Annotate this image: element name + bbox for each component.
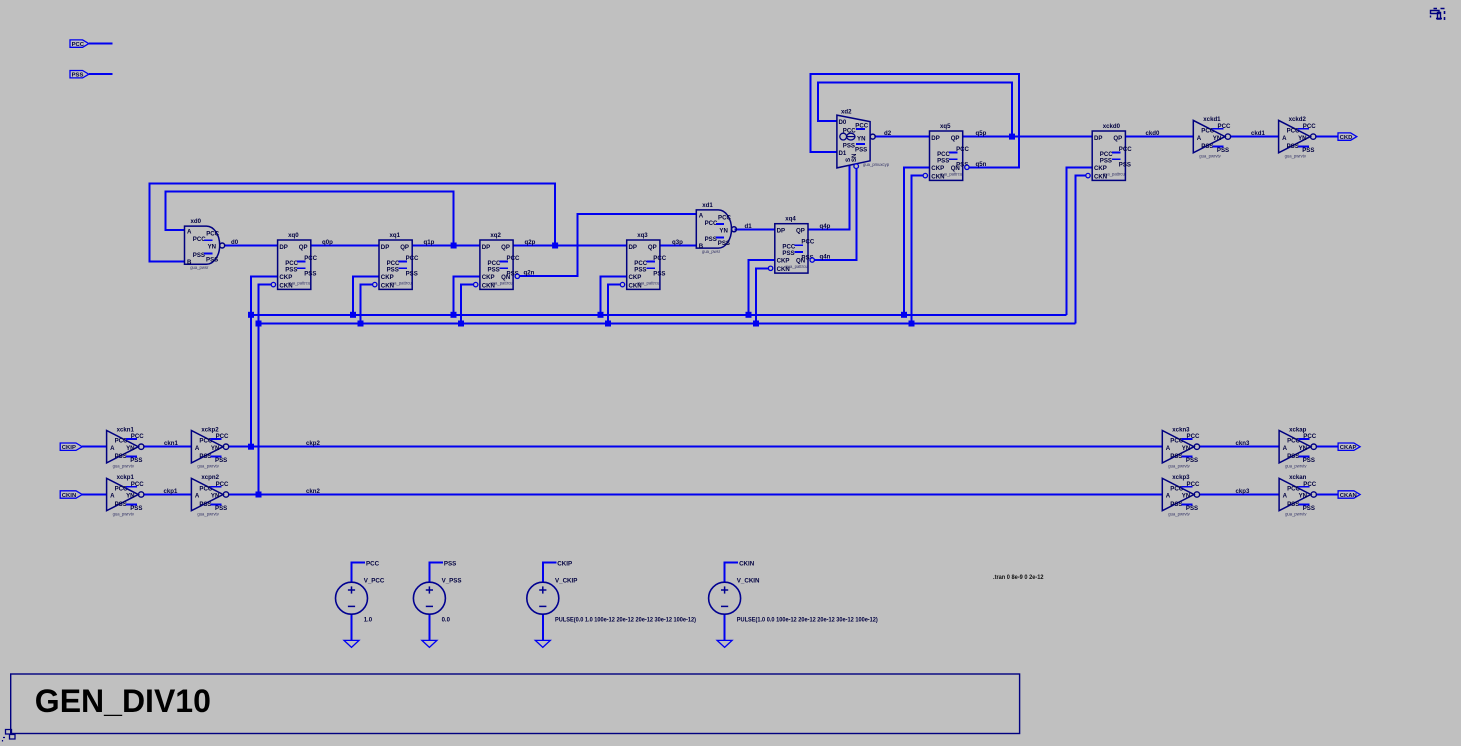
wire xq0 CKP hookup <box>251 276 278 446</box>
svg-text:V_PCC: V_PCC <box>364 577 385 584</box>
svg-text:q5n: q5n <box>976 161 987 168</box>
svg-text:PCC: PCC <box>653 255 666 262</box>
svg-text:gua_pwrvtv: gua_pwrvtv <box>197 511 219 516</box>
wire net ckd2 to CKD port <box>1316 136 1338 138</box>
port PSS (top-left) <box>70 71 89 79</box>
svg-text:CKN: CKN <box>931 173 944 180</box>
svg-text:d2: d2 <box>884 130 892 137</box>
svg-text:A: A <box>1283 493 1288 500</box>
svg-text:xq1: xq1 <box>390 232 401 239</box>
flip-flop xq2 <box>474 232 520 290</box>
flip-flop xq4 <box>768 216 814 274</box>
svg-text:CKIP: CKIP <box>557 560 572 567</box>
voltage source V_PSS <box>413 560 461 640</box>
wire net ckp1 <box>144 494 191 496</box>
wire bus ckn2 horizontal <box>259 323 1076 325</box>
svg-text:YN: YN <box>208 244 216 251</box>
junction q5p tap <box>1009 134 1015 140</box>
svg-text:SN: SN <box>851 154 858 162</box>
junction xq2 CKN on ckn2 bus <box>458 321 464 327</box>
svg-text:V_CKIP: V_CKIP <box>555 577 577 584</box>
title box GEN_DIV10 <box>11 674 1020 734</box>
svg-text:YN: YN <box>1182 493 1190 500</box>
junction q2p tap <box>552 243 558 249</box>
wire net q5p feedback (inner loop to xd2 D0) <box>818 83 1012 137</box>
svg-text:A: A <box>1166 445 1171 452</box>
svg-text:A: A <box>195 493 200 500</box>
svg-text:PSS: PSS <box>634 267 646 274</box>
svg-text:PSS: PSS <box>304 271 316 278</box>
wire net d0 <box>225 245 278 247</box>
nand xd0 <box>185 218 225 270</box>
svg-text:A: A <box>1166 493 1171 500</box>
svg-text:ckd1: ckd1 <box>1251 130 1266 137</box>
svg-text:PCC: PCC <box>366 560 380 567</box>
svg-text:PSS: PSS <box>1100 158 1112 165</box>
junction xq5 CKN on ckn2 bus <box>909 321 915 327</box>
svg-text:QP: QP <box>400 244 409 251</box>
wire net ckn3 <box>1200 446 1279 448</box>
svg-text:gua_pwrvtv: gua_pwrvtv <box>1285 153 1307 158</box>
inverter xckap <box>1279 426 1317 468</box>
svg-text:gua_pwrvtv: gua_pwrvtv <box>1199 153 1221 158</box>
junction q1p tap <box>451 243 457 249</box>
wire net ckp3 <box>1200 494 1279 496</box>
port CKIP <box>60 443 82 451</box>
svg-text:q1p: q1p <box>424 239 435 246</box>
junction xq4 CKP on ckp2 bus <box>746 312 752 318</box>
svg-text:gua_pwrvtv: gua_pwrvtv <box>113 464 135 469</box>
flip-flop xq0 <box>271 232 317 290</box>
wire xq0 CKN hookup <box>259 285 272 495</box>
svg-text:QP: QP <box>648 244 657 251</box>
wire net d1 <box>734 228 774 230</box>
junction xq1 CKN on ckn2 bus <box>358 321 364 327</box>
svg-text:q3p: q3p <box>672 239 683 246</box>
svg-text:PSS: PSS <box>206 256 218 263</box>
svg-text:A: A <box>1197 135 1202 142</box>
svg-text:PSS: PSS <box>782 250 794 257</box>
svg-text:YN: YN <box>1299 445 1307 452</box>
junction xq0 CKP on ckp2 bus <box>248 312 254 318</box>
wire net q4p (to xd2 S) <box>808 165 849 229</box>
svg-text:YN: YN <box>1182 445 1190 452</box>
svg-text:PSS: PSS <box>199 453 211 460</box>
svg-text:DP: DP <box>482 244 490 251</box>
inverter xckd1 <box>1193 116 1231 158</box>
junction ckn2 bus to ckn2 row <box>256 492 262 498</box>
wire from port PCC <box>89 43 113 45</box>
port CKAN <box>1338 491 1360 499</box>
svg-text:CKAN: CKAN <box>1340 493 1357 499</box>
svg-text:PSS: PSS <box>285 267 297 274</box>
svg-text:A: A <box>110 445 115 452</box>
svg-text:xq4: xq4 <box>785 216 796 223</box>
ground V_PSS <box>422 640 437 647</box>
nand xd1 <box>696 202 736 254</box>
svg-text:PSS: PSS <box>1287 501 1299 508</box>
wire xq5 CKP hookup <box>904 167 930 314</box>
svg-text:YN: YN <box>126 493 134 500</box>
svg-text:A: A <box>699 212 704 219</box>
svg-text:xckd0: xckd0 <box>1103 123 1121 130</box>
svg-text:PSS: PSS <box>444 560 456 567</box>
svg-text:gua_pwsr: gua_pwsr <box>190 265 209 270</box>
svg-text:DP: DP <box>381 244 389 251</box>
svg-text:CKIN: CKIN <box>739 560 755 567</box>
svg-text:QN: QN <box>501 274 510 281</box>
svg-text:PSS: PSS <box>1170 453 1182 460</box>
svg-text:ckp3: ckp3 <box>1236 488 1251 495</box>
svg-text:gua_pmuxcyp: gua_pmuxcyp <box>863 162 890 167</box>
svg-text:A: A <box>1283 445 1288 452</box>
flip-flop xq3 <box>620 232 666 290</box>
wire net q0p <box>311 245 379 247</box>
svg-text:YN: YN <box>1213 135 1221 142</box>
ground V_CKIP <box>535 640 550 647</box>
svg-text:xq2: xq2 <box>490 232 501 239</box>
svg-text:YN: YN <box>126 445 134 452</box>
svg-text:ckp2: ckp2 <box>306 440 321 447</box>
wire net q2p feedback (outer loop to xd0 B) <box>150 183 555 261</box>
wire net ckp2 long <box>229 446 1162 448</box>
svg-text:QN: QN <box>796 258 805 265</box>
wire xq3 CKN hookup <box>608 285 620 324</box>
wire net q5p (to xckd0 DP) <box>963 136 1092 138</box>
svg-text:CKIN: CKIN <box>62 493 76 499</box>
svg-text:q4n: q4n <box>820 254 831 261</box>
mux xd2 <box>837 109 890 169</box>
flip-flop xckd0 <box>1086 123 1132 181</box>
svg-text:q0p: q0p <box>322 239 333 246</box>
svg-text:xq0: xq0 <box>288 232 299 239</box>
svg-text:PCC: PCC <box>507 255 520 262</box>
wire xq1 CKN hookup <box>361 285 373 324</box>
wire net ckan to port <box>1317 494 1339 496</box>
junction xq2 CKP on ckp2 bus <box>451 312 457 318</box>
wire xckd0 CKN hookup <box>1075 176 1085 324</box>
inverter xckan <box>1279 474 1317 516</box>
svg-text:CKN: CKN <box>482 282 495 289</box>
svg-text:V_PSS: V_PSS <box>442 577 462 584</box>
port CKIN <box>60 491 82 499</box>
svg-text:PCC: PCC <box>801 239 814 246</box>
svg-text:DP: DP <box>1094 135 1102 142</box>
svg-text:ckd0: ckd0 <box>1146 130 1161 137</box>
svg-text:PSS: PSS <box>1287 143 1299 150</box>
inverter xcpn2 <box>191 474 229 516</box>
svg-text:PSS: PSS <box>937 158 949 165</box>
port PCC (top-left) <box>70 40 89 48</box>
svg-text:PSS: PSS <box>843 142 855 149</box>
svg-text:D1: D1 <box>839 150 847 157</box>
svg-text:QP: QP <box>1113 135 1122 142</box>
svg-text:A: A <box>110 493 115 500</box>
wire xq2 CKP hookup <box>454 276 480 315</box>
svg-text:A: A <box>195 445 200 452</box>
wire net ckd0 <box>1125 136 1193 138</box>
wire xq3 CKP hookup <box>601 276 627 315</box>
wire net q2n (to xd1 A) <box>518 214 696 276</box>
svg-text:xd1: xd1 <box>702 202 713 209</box>
svg-text:gua_pwrvtv: gua_pwrvtv <box>1285 511 1307 516</box>
wire from CKIN port <box>82 494 106 496</box>
flip-flop xq1 <box>373 232 419 290</box>
svg-text:YN: YN <box>857 135 865 142</box>
svg-text:gua_pwrvtv: gua_pwrvtv <box>1168 511 1190 516</box>
svg-text:PCC: PCC <box>304 255 317 262</box>
voltage source V_CKIP <box>527 560 696 640</box>
svg-text:PSS: PSS <box>193 252 205 259</box>
svg-text:1.0: 1.0 <box>364 618 373 624</box>
svg-text:PULSE(0.0 1.0 100e-12 20e-12 2: PULSE(0.0 1.0 100e-12 20e-12 20e-12 30e-… <box>555 618 696 624</box>
wire net ckd1 <box>1231 136 1279 138</box>
svg-text:PSS: PSS <box>653 271 665 278</box>
svg-text:CKN: CKN <box>1094 173 1107 180</box>
svg-text:YN: YN <box>211 493 219 500</box>
svg-text:.tran 0 8e-9 0 2e-12: .tran 0 8e-9 0 2e-12 <box>993 575 1044 581</box>
svg-text:CKIP: CKIP <box>62 445 76 451</box>
svg-text:PSS: PSS <box>718 240 730 247</box>
wire net q1p feedback (inner loop to xd0 A) <box>166 192 454 246</box>
svg-text:DP: DP <box>279 244 287 251</box>
svg-text:CKN: CKN <box>279 282 292 289</box>
svg-text:YN: YN <box>719 227 727 234</box>
wire net q2p <box>513 245 627 247</box>
svg-text:PSS: PSS <box>72 73 84 79</box>
svg-text:DP: DP <box>777 228 785 235</box>
svg-text:CKAP: CKAP <box>1340 445 1357 451</box>
svg-text:q2p: q2p <box>525 239 536 246</box>
junction xq3 CKN on ckn2 bus <box>605 321 611 327</box>
svg-text:PSS: PSS <box>1170 501 1182 508</box>
svg-text:PCC: PCC <box>206 231 219 238</box>
flip-flop xq5 <box>923 123 969 181</box>
corner marker icon (top right) <box>1431 9 1445 21</box>
wire xq5 CKN hookup <box>912 176 923 324</box>
svg-text:PCC: PCC <box>406 255 419 262</box>
junction xq1 CKP on ckp2 bus <box>350 312 356 318</box>
svg-text:PCC: PCC <box>843 127 856 134</box>
ground V_CKIN <box>717 640 732 647</box>
svg-text:CKN: CKN <box>777 266 790 273</box>
svg-text:D0: D0 <box>839 119 847 126</box>
svg-text:PSS: PSS <box>406 271 418 278</box>
wire xq4 CKP hookup <box>749 260 775 315</box>
wire net d2 <box>875 136 929 138</box>
svg-text:PCC: PCC <box>718 214 731 221</box>
svg-text:gua_pwrvtv: gua_pwrvtv <box>113 511 135 516</box>
svg-text:V_CKIN: V_CKIN <box>737 577 760 584</box>
svg-text:0.0: 0.0 <box>442 618 451 624</box>
wire from port PSS <box>89 73 113 75</box>
wire net q5n feedback (outer loop to xd2 D1) <box>810 74 1019 167</box>
wire from CKIP port <box>82 446 106 448</box>
svg-text:QN: QN <box>951 165 960 172</box>
svg-text:PCC: PCC <box>72 42 85 48</box>
junction xq5 CKP on ckp2 bus <box>901 312 907 318</box>
wire xq2 CKN hookup <box>461 285 473 324</box>
svg-text:q4p: q4p <box>820 223 831 230</box>
svg-text:QP: QP <box>796 228 805 235</box>
wire xq4 CKN hookup <box>756 268 768 323</box>
svg-text:xd2: xd2 <box>841 109 852 116</box>
wire bus ckp2 horizontal <box>251 314 1067 316</box>
wire net q3p <box>660 245 696 247</box>
svg-text:d1: d1 <box>745 223 753 230</box>
svg-text:q5p: q5p <box>976 130 987 137</box>
wire net ckn1 <box>144 446 191 448</box>
svg-text:gua_pwrvtv: gua_pwrvtv <box>1285 464 1307 469</box>
svg-text:YN: YN <box>211 445 219 452</box>
svg-text:A: A <box>1282 135 1287 142</box>
svg-text:PSS: PSS <box>199 501 211 508</box>
voltage source V_CKIN <box>709 560 878 640</box>
svg-text:ckn2: ckn2 <box>306 488 321 495</box>
corner marker icon (bottom left) <box>3 730 16 742</box>
svg-text:PSS: PSS <box>1119 162 1131 169</box>
svg-text:PSS: PSS <box>855 147 867 154</box>
svg-text:xd0: xd0 <box>191 218 202 225</box>
port CKD <box>1338 133 1357 141</box>
svg-text:CKD: CKD <box>1340 135 1353 141</box>
svg-text:PSS: PSS <box>387 267 399 274</box>
svg-text:PSS: PSS <box>1201 143 1213 150</box>
inverter xckd2 <box>1279 116 1317 158</box>
svg-text:PCC: PCC <box>956 146 969 153</box>
junction xq0 CKN on ckn2 bus <box>256 321 262 327</box>
svg-text:ckn1: ckn1 <box>164 440 179 447</box>
inverter xckp2 <box>191 426 229 468</box>
svg-text:ckp1: ckp1 <box>164 488 179 495</box>
svg-text:q2n: q2n <box>524 270 535 277</box>
svg-text:PSS: PSS <box>705 236 717 243</box>
inverter xckp3 <box>1162 474 1200 516</box>
wire net ckap to port <box>1317 446 1339 448</box>
svg-text:QP: QP <box>501 244 510 251</box>
svg-text:YN: YN <box>1299 493 1307 500</box>
svg-text:gua_pwrvtv: gua_pwrvtv <box>1168 464 1190 469</box>
voltage source V_PCC <box>336 560 385 640</box>
wire net q1p <box>412 245 480 247</box>
svg-text:CKN: CKN <box>381 282 394 289</box>
svg-text:QP: QP <box>951 135 960 142</box>
wire xq1 CKP hookup <box>353 276 379 315</box>
wire net q4n (to xd2 SN) <box>813 169 856 260</box>
svg-text:PCC: PCC <box>1119 146 1132 153</box>
svg-text:YN: YN <box>1298 135 1306 142</box>
svg-text:DP: DP <box>931 135 939 142</box>
svg-text:PULSE(1.0 0.0 100e-12 20e-12 2: PULSE(1.0 0.0 100e-12 20e-12 20e-12 30e-… <box>737 618 878 624</box>
svg-text:PSS: PSS <box>1287 453 1299 460</box>
wire xckd0 CKP hookup <box>1067 167 1093 314</box>
junction xq3 CKP on ckp2 bus <box>598 312 604 318</box>
svg-text:d0: d0 <box>231 239 239 246</box>
svg-text:A: A <box>187 229 192 236</box>
svg-text:QP: QP <box>299 244 308 251</box>
svg-text:PSS: PSS <box>115 453 127 460</box>
svg-text:ckn3: ckn3 <box>1236 440 1251 447</box>
inverter xckn1 <box>107 426 145 468</box>
junction ckp2 bus to ckp2 row <box>248 444 254 450</box>
ground V_PCC <box>344 640 359 647</box>
svg-text:xq5: xq5 <box>940 123 951 130</box>
svg-text:GEN_DIV10: GEN_DIV10 <box>35 683 211 719</box>
svg-text:xq3: xq3 <box>637 232 648 239</box>
inverter xckn3 <box>1162 426 1200 468</box>
svg-text:gua_pwrvtv: gua_pwrvtv <box>197 464 219 469</box>
junction xq4 CKN on ckn2 bus <box>753 321 759 327</box>
inverter xckp1 <box>107 474 145 516</box>
wire net ckn2 long <box>229 494 1162 496</box>
svg-text:CKN: CKN <box>629 282 642 289</box>
svg-text:PSS: PSS <box>115 501 127 508</box>
svg-text:gua_pwsr: gua_pwsr <box>702 249 721 254</box>
svg-text:PSS: PSS <box>488 267 500 274</box>
port CKAP <box>1338 443 1360 451</box>
svg-text:DP: DP <box>629 244 637 251</box>
